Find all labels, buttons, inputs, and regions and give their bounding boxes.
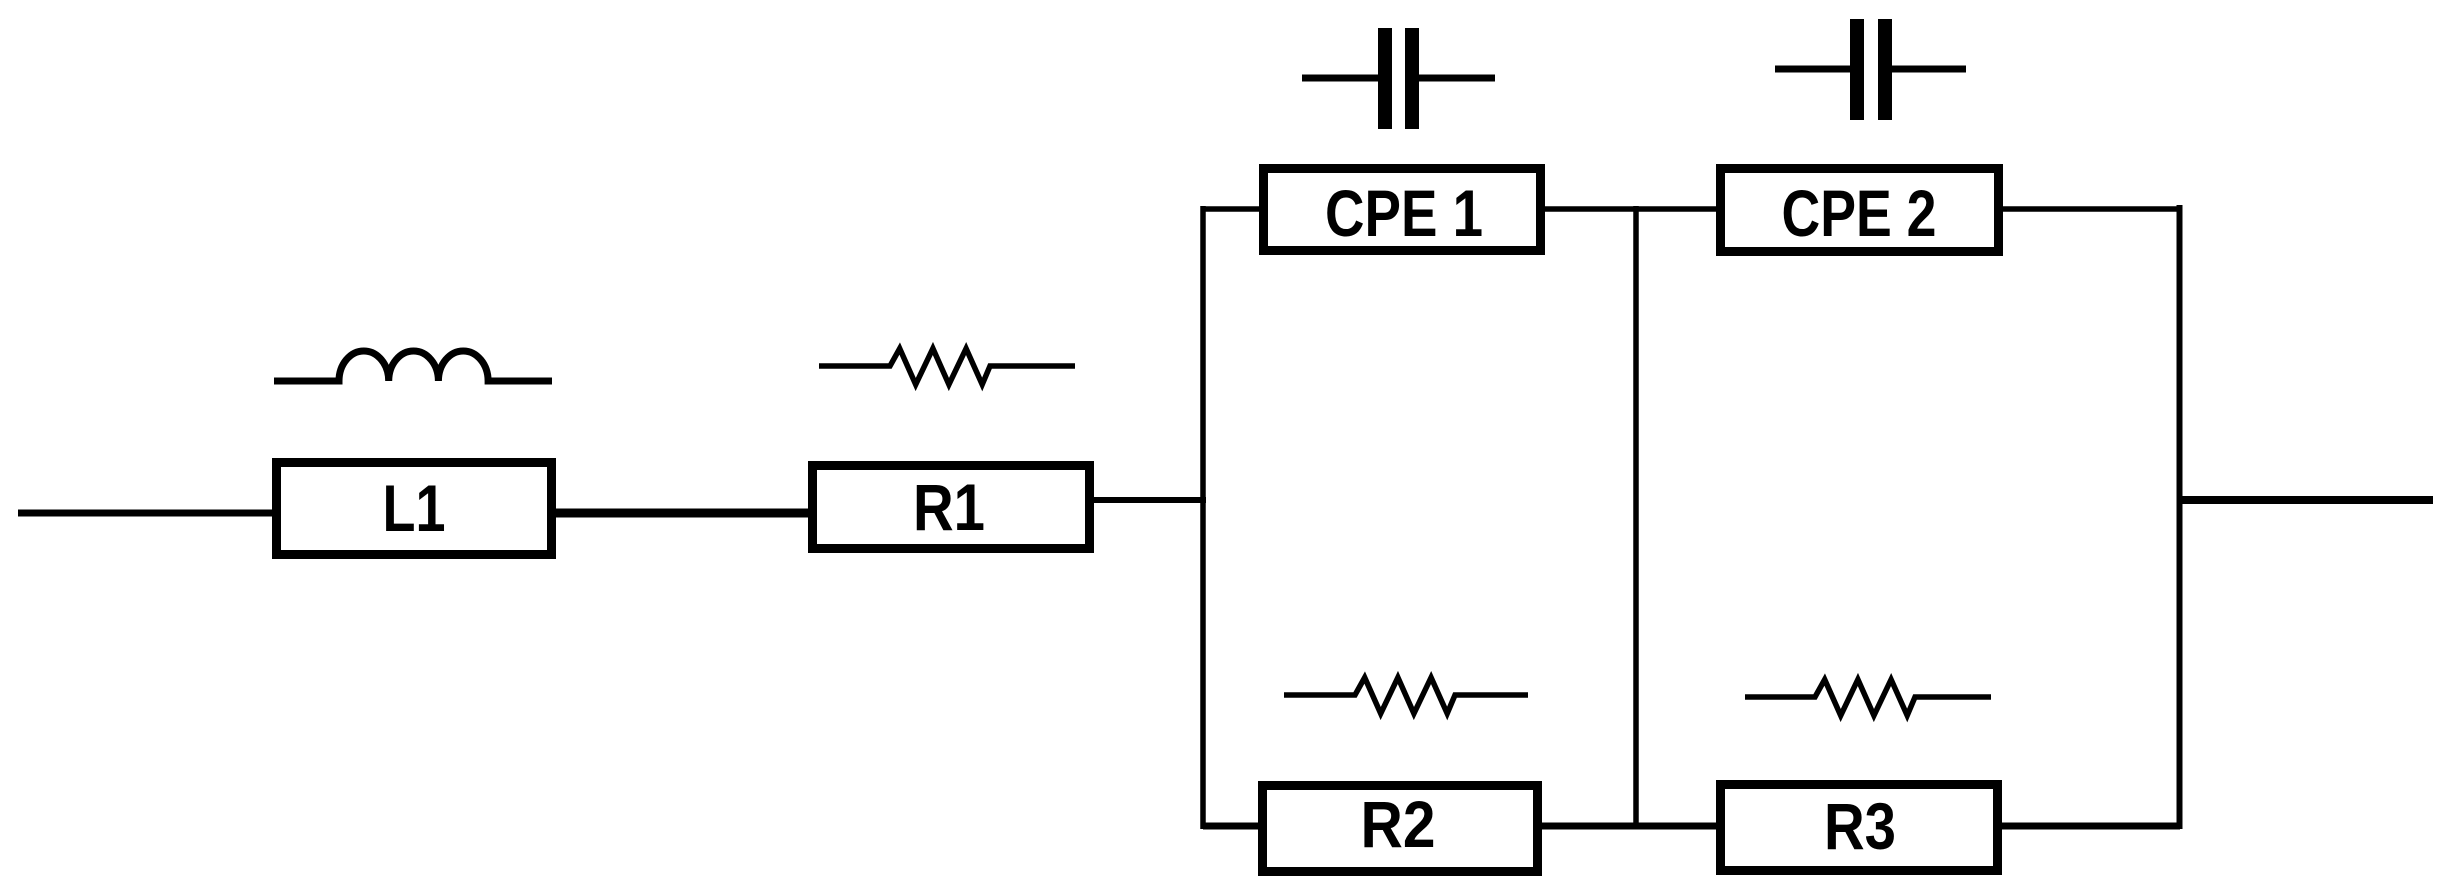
capacitor symbol above CPE1: left plate bbox=[1378, 28, 1392, 129]
svg-text:R2: R2 bbox=[1361, 787, 1436, 861]
inductor coil symbol above L1 bbox=[274, 351, 552, 381]
inductor L1 box bbox=[277, 463, 552, 555]
CPE 2 box bbox=[1721, 169, 1999, 252]
capacitor symbol above CPE2: right plate bbox=[1878, 19, 1892, 120]
resistor zigzag symbol above R2 bbox=[1284, 678, 1528, 714]
resistor R1 box bbox=[813, 466, 1090, 549]
wire left bus (node A vertical) bbox=[1200, 206, 1206, 829]
resistor zigzag symbol above R3 bbox=[1745, 680, 1991, 716]
resistor R3 box bbox=[1721, 785, 1998, 871]
wire top rail (CPE1/CPE2 branch) bbox=[1203, 206, 2180, 212]
wire L1 to R1 bbox=[554, 509, 810, 518]
capacitor symbol above CPE2: right lead bbox=[1892, 66, 1966, 73]
svg-text:CPE 1: CPE 1 bbox=[1325, 176, 1483, 250]
wire bottom rail (R2/R3 branch) bbox=[1203, 823, 2180, 830]
capacitor symbol above CPE1: right plate bbox=[1405, 28, 1419, 129]
wire input lead (left) bbox=[18, 510, 274, 517]
svg-text:CPE 2: CPE 2 bbox=[1782, 176, 1937, 250]
capacitor symbol above CPE1: left lead bbox=[1302, 75, 1379, 82]
capacitor symbol above CPE2: left lead bbox=[1775, 66, 1851, 73]
resistor R2 box bbox=[1263, 786, 1538, 872]
svg-text:R3: R3 bbox=[1824, 789, 1896, 863]
wire middle bus (node B vertical) bbox=[1633, 206, 1639, 829]
capacitor symbol above CPE2: left plate bbox=[1850, 19, 1864, 120]
wire output lead (right) bbox=[2177, 496, 2433, 504]
capacitor symbol above CPE1: right lead bbox=[1419, 75, 1495, 82]
svg-text:L1: L1 bbox=[383, 471, 446, 545]
wire R1 to node A bbox=[1092, 497, 1206, 503]
resistor zigzag symbol above R1 bbox=[819, 349, 1075, 385]
wire right bus (node C vertical) bbox=[2177, 205, 2183, 829]
svg-text:R1: R1 bbox=[913, 470, 985, 544]
CPE 1 box bbox=[1264, 169, 1541, 251]
